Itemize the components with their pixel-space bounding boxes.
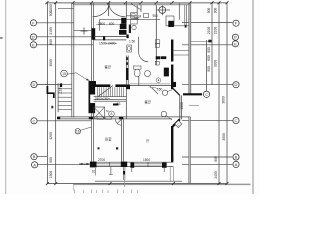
svg-text:2100: 2100 (214, 27, 218, 35)
svg-text:D: D (235, 82, 238, 87)
svg-text:M: M (139, 15, 142, 19)
svg-text:1500: 1500 (49, 171, 53, 179)
svg-text:2400: 2400 (214, 171, 218, 179)
svg-text:D: D (33, 82, 36, 87)
svg-text:3600: 3600 (222, 96, 226, 104)
svg-text:800: 800 (49, 39, 53, 45)
svg-text:卧室: 卧室 (105, 137, 112, 142)
svg-text:1500: 1500 (99, 42, 107, 46)
svg-text:2100: 2100 (207, 27, 211, 35)
svg-text:600: 600 (207, 55, 211, 61)
svg-text:900: 900 (153, 14, 159, 18)
svg-text:900: 900 (214, 8, 218, 14)
svg-text:B: B (235, 155, 238, 160)
svg-text:900: 900 (207, 47, 211, 53)
svg-text:4200: 4200 (49, 132, 53, 140)
svg-text:900: 900 (207, 8, 211, 14)
svg-text:2800x260=...: 2800x260=... (95, 97, 113, 101)
svg-text:2: 2 (172, 157, 174, 161)
svg-text:C: C (205, 93, 208, 97)
svg-text:客厅: 客厅 (145, 100, 152, 105)
svg-text:2700: 2700 (98, 158, 105, 162)
svg-text:客厅: 客厅 (105, 65, 112, 70)
svg-text:D': D' (234, 35, 238, 40)
svg-text:1500: 1500 (143, 158, 150, 162)
svg-text:J1: J1 (92, 170, 96, 174)
svg-text:2800: 2800 (98, 22, 105, 26)
svg-text:900: 900 (49, 11, 53, 17)
svg-text:1500: 1500 (180, 102, 184, 110)
svg-text:E: E (234, 41, 237, 46)
svg-text:15: 15 (62, 72, 66, 76)
svg-text:A: A (235, 162, 238, 167)
svg-text:600: 600 (109, 22, 115, 26)
svg-text:900: 900 (49, 157, 53, 163)
svg-text:上18: 上18 (57, 87, 62, 94)
svg-text:B: B (33, 154, 36, 159)
svg-text:150: 150 (157, 88, 163, 92)
svg-text:2100: 2100 (49, 27, 53, 35)
svg-text:1.50: 1.50 (129, 40, 135, 44)
svg-text:E: E (32, 42, 35, 47)
svg-text:C: C (235, 118, 238, 123)
svg-text:2400: 2400 (108, 42, 116, 46)
svg-text:3900: 3900 (222, 133, 226, 141)
svg-text:900: 900 (207, 66, 211, 72)
svg-text:A: A (33, 162, 36, 167)
svg-text:C: C (33, 118, 36, 123)
svg-text:3900: 3900 (49, 59, 53, 67)
svg-text:D': D' (32, 35, 36, 40)
svg-text:1800: 1800 (49, 4, 53, 12)
svg-text:16: 16 (76, 130, 80, 134)
svg-text:3300: 3300 (214, 60, 218, 68)
svg-text:900: 900 (214, 156, 218, 162)
